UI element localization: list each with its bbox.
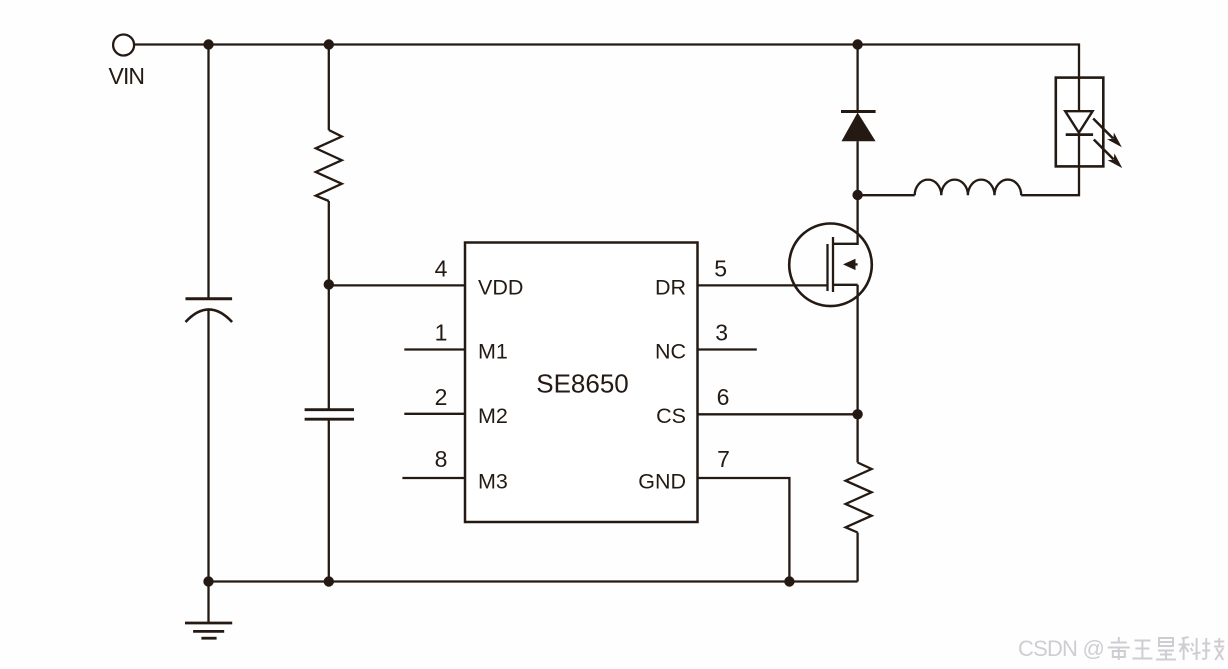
wire drain <box>833 195 858 244</box>
wire below R2 <box>856 533 858 582</box>
watermark glyph di <box>1108 637 1130 660</box>
watermark glyph ji <box>1202 638 1224 660</box>
wire LED anode <box>1078 78 1080 112</box>
svg-text:CS: CS <box>656 404 686 428</box>
wire inductor to LED <box>1021 166 1079 195</box>
capacitor C2 <box>305 410 354 420</box>
svg-text:8: 8 <box>435 446 448 472</box>
svg-text:1: 1 <box>435 320 448 346</box>
LED arrow 2 <box>1094 140 1123 169</box>
transistor Q1 <box>789 223 872 306</box>
svg-text:7: 7 <box>717 446 730 472</box>
svg-text:VDD: VDD <box>478 275 523 299</box>
inductor L1 <box>915 180 1022 196</box>
svg-text:GND: GND <box>638 469 686 493</box>
junction SW node <box>852 190 862 200</box>
wire top rail <box>134 45 1079 78</box>
LED D2 <box>1065 111 1093 166</box>
wire pin8 M3 <box>402 477 465 479</box>
svg-text:DR: DR <box>655 275 686 299</box>
wire VDD pin4 <box>329 284 465 286</box>
resistor R2 <box>846 463 872 533</box>
junction bottom mid <box>324 576 334 586</box>
wire SW to inductor <box>858 194 915 196</box>
wire below D1 <box>856 141 858 195</box>
capacitor C1 <box>186 299 233 322</box>
wire below R1 <box>328 201 330 285</box>
junction top-mid <box>324 39 334 49</box>
svg-text:M1: M1 <box>478 340 508 364</box>
wire pin1 M1 <box>404 348 465 350</box>
svg-text:3: 3 <box>715 320 728 346</box>
wire below C2 <box>328 419 330 581</box>
svg-text:6: 6 <box>717 384 730 410</box>
wire above R1 <box>328 45 330 131</box>
junction CS node <box>852 409 862 419</box>
svg-text:CSDN @: CSDN @ <box>1018 636 1104 661</box>
wire input branch <box>207 45 209 299</box>
wire above R2 <box>856 414 858 462</box>
wire above D1 <box>856 45 858 112</box>
watermark glyph ke <box>1179 637 1201 660</box>
svg-text:VIN: VIN <box>109 63 145 89</box>
svg-text:M3: M3 <box>478 469 508 493</box>
IC U1 SE8650 box <box>465 243 698 523</box>
svg-text:5: 5 <box>714 256 727 282</box>
svg-text:NC: NC <box>655 340 686 364</box>
ground <box>185 582 232 639</box>
junction top-right <box>852 39 862 49</box>
wire source <box>856 285 858 415</box>
wire pin6 CS <box>698 413 858 415</box>
LED arrow 1 <box>1093 119 1122 148</box>
junction VDD node <box>324 279 334 289</box>
wire pin7 GND <box>698 478 790 582</box>
wire pin2 M2 <box>404 413 465 415</box>
terminal VIN <box>113 35 134 56</box>
wire pin3 NC stub <box>698 348 757 350</box>
bottom rail wire <box>209 580 858 582</box>
svg-text:2: 2 <box>435 384 448 410</box>
junction top-left <box>203 39 213 49</box>
watermark glyph xing <box>1156 638 1176 660</box>
wire pin5 DR gate lead <box>698 284 828 286</box>
watermark glyph wang <box>1132 641 1152 659</box>
LED box <box>1056 78 1104 167</box>
svg-text:M2: M2 <box>478 404 508 428</box>
svg-text:4: 4 <box>435 256 448 282</box>
diode D1 <box>841 112 876 142</box>
svg-text:SE8650: SE8650 <box>536 368 629 398</box>
junction bottom gnd-pin <box>784 576 794 586</box>
resistor R1 <box>316 130 342 201</box>
wire above C2 <box>328 285 330 410</box>
junction ground node <box>203 576 213 586</box>
wire below C1 <box>207 310 209 582</box>
